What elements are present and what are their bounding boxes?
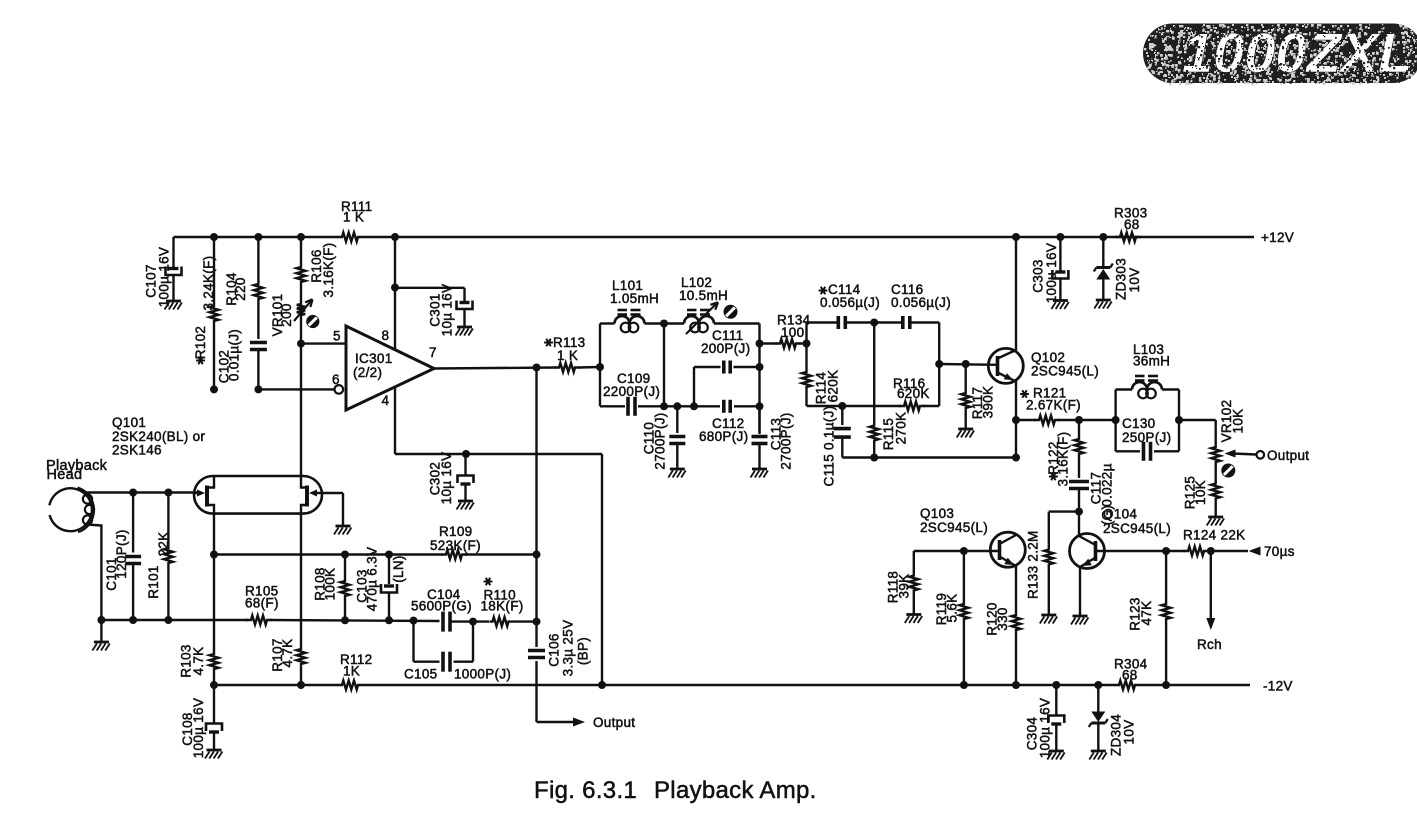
svg-text:2.67K(F): 2.67K(F) — [1026, 398, 1081, 413]
svg-text:250P(J): 250P(J) — [1122, 430, 1171, 445]
ground C108 — [205, 750, 222, 759]
svg-text:0.01µ(J): 0.01µ(J) — [226, 329, 241, 381]
inductor L101 — [610, 278, 659, 332]
node J13 — [533, 618, 541, 626]
node J3 — [297, 233, 305, 241]
svg-text:10K: 10K — [1231, 409, 1246, 434]
resistor R111 — [337, 199, 372, 242]
node J26 — [129, 616, 137, 624]
svg-text:Fig. 6.3.1: Fig. 6.3.1 — [534, 777, 637, 804]
svg-text:C115 0.1µ(J): C115 0.1µ(J) — [822, 406, 837, 487]
wire R113 to tank — [579, 366, 601, 369]
node J57 — [1207, 547, 1215, 555]
node J56 — [1162, 681, 1170, 689]
wire box left — [1114, 390, 1116, 452]
capacitor C114 — [820, 282, 880, 329]
capacitor C103 — [355, 547, 407, 621]
svg-text:0.022µ: 0.022µ — [1099, 463, 1114, 506]
node J22 — [297, 681, 305, 689]
node J9 — [598, 681, 606, 689]
svg-text:Output: Output — [593, 715, 635, 730]
capacitor C104 — [411, 587, 472, 632]
node J52 — [960, 547, 968, 555]
potentiometer VR101 — [270, 285, 313, 344]
node J36 — [803, 340, 811, 348]
svg-text:2.2M: 2.2M — [1026, 530, 1041, 561]
net 70us — [1249, 544, 1295, 559]
svg-text:220: 220 — [233, 277, 248, 300]
diode ZD304 — [1089, 685, 1137, 756]
ground C110 — [668, 469, 685, 478]
capacitor C111 — [694, 328, 760, 406]
svg-text:1 K: 1 K — [557, 348, 578, 363]
ground C107 — [165, 301, 182, 310]
node J31 — [756, 363, 764, 371]
svg-text:Q101: Q101 — [112, 415, 146, 430]
svg-text:10µ 16V: 10µ 16V — [439, 452, 454, 505]
svg-text:(2/2): (2/2) — [353, 365, 382, 380]
wire feedback — [537, 368, 577, 723]
wire blk2 top — [807, 321, 940, 323]
wire pin4 — [395, 387, 602, 685]
svg-text:10.5mH: 10.5mH — [679, 288, 728, 303]
node J25 — [164, 489, 172, 497]
star R102 — [196, 357, 205, 365]
node J30 — [756, 340, 764, 348]
resistor R125 — [1183, 476, 1221, 516]
resistor R123 — [1128, 551, 1171, 685]
resistor R116 — [893, 376, 930, 411]
node J37 — [870, 319, 878, 327]
node J34 — [673, 402, 681, 410]
svg-text:68: 68 — [1124, 217, 1140, 232]
svg-text:2700P(J): 2700P(J) — [779, 412, 794, 469]
resistor R109 — [214, 524, 537, 559]
capacitor C108 — [180, 685, 222, 758]
node J39 — [838, 402, 846, 410]
svg-text:470µ 6.3V: 470µ 6.3V — [365, 547, 380, 612]
svg-text:R102: R102 — [193, 326, 208, 359]
svg-text:R101: R101 — [146, 565, 161, 598]
svg-text:70µs: 70µs — [1264, 544, 1295, 559]
wire box bottom — [1116, 450, 1179, 452]
node J11 — [533, 364, 541, 372]
node J47 — [1075, 508, 1083, 516]
resistor R107 — [270, 514, 306, 685]
svg-text:2SK146: 2SK146 — [112, 443, 162, 458]
svg-text:4.7K: 4.7K — [280, 639, 295, 668]
op-amp U IC301 — [346, 326, 437, 410]
svg-text:-12V: -12V — [1263, 679, 1293, 694]
wire tank top — [600, 322, 760, 324]
svg-text:R133: R133 — [1026, 566, 1041, 599]
svg-text:120P(J): 120P(J) — [114, 529, 129, 578]
svg-text:523K(F): 523K(F) — [430, 538, 481, 553]
resistor R124 — [1183, 528, 1245, 556]
potentiometer VR102 — [1211, 400, 1245, 482]
wire to VR102 — [1179, 420, 1216, 444]
node J12 — [533, 551, 541, 559]
svg-text:22K: 22K — [156, 532, 171, 557]
capacitor C101 — [104, 493, 141, 621]
capacitor C106 — [528, 620, 591, 677]
star R121 — [1020, 390, 1029, 398]
wire tank left — [599, 324, 601, 407]
wire Q101 right gate — [322, 493, 343, 525]
svg-text:2SC945(L): 2SC945(L) — [920, 520, 988, 535]
svg-text:10µ 16V: 10µ 16V — [440, 284, 455, 337]
wire pin5 — [301, 329, 346, 344]
terminal Output — [1257, 448, 1310, 463]
node J20 — [469, 618, 477, 626]
wire pin8 — [394, 237, 396, 350]
resistor R106 — [297, 237, 336, 297]
svg-text:100: 100 — [781, 325, 804, 340]
node J51 — [1094, 681, 1102, 689]
svg-text:39K: 39K — [897, 574, 912, 599]
svg-text:R124 22K: R124 22K — [1183, 528, 1245, 543]
capacitor C109 — [603, 371, 660, 416]
svg-text:Head: Head — [47, 467, 83, 483]
svg-text:3.3µ 25V: 3.3µ 25V — [561, 620, 576, 677]
capacitor C304 — [1025, 685, 1065, 758]
capacitor C105 — [404, 621, 511, 682]
svg-text:270K: 270K — [894, 412, 909, 445]
arrow output lower — [573, 718, 585, 727]
node J19 — [385, 551, 393, 559]
svg-text:5600P(G): 5600P(G) — [411, 599, 472, 614]
ground C302 — [457, 501, 474, 510]
node J6 — [254, 385, 262, 393]
svg-text:Q104: Q104 — [1103, 507, 1137, 522]
wire Q104 emitter — [1079, 567, 1081, 616]
svg-text:18K(F): 18K(F) — [481, 599, 524, 614]
wire Q102 emitter — [1015, 381, 1017, 458]
transistor Q101 — [112, 415, 322, 514]
ground C303 — [1051, 301, 1068, 310]
svg-text:4: 4 — [382, 393, 390, 408]
node J1 — [210, 233, 218, 241]
ground ZD303 — [1094, 300, 1111, 309]
svg-text:2SC945(L): 2SC945(L) — [1103, 521, 1171, 536]
resistor R122 — [1046, 420, 1084, 486]
svg-text:100µ 16V: 100µ 16V — [157, 247, 172, 307]
ground C304 — [1047, 751, 1064, 760]
resistor R103 — [179, 514, 219, 685]
resistor R120 — [985, 566, 1021, 686]
wire tank mid — [663, 324, 665, 407]
svg-text:+12V: +12V — [1261, 230, 1294, 245]
node J24 — [129, 489, 137, 497]
node J28 — [596, 363, 604, 371]
resistor R113 — [553, 335, 585, 372]
svg-text:1 K: 1 K — [343, 210, 364, 225]
node J2 — [254, 233, 262, 241]
wire Q103 base — [914, 550, 1000, 552]
node J21 — [210, 681, 218, 689]
ground ZD304 — [1089, 751, 1106, 760]
svg-text:(BP): (BP) — [576, 637, 591, 665]
ground C113 — [751, 469, 768, 478]
wire box top — [1116, 388, 1179, 390]
net -12V label — [1263, 679, 1293, 694]
node J48 — [1056, 233, 1064, 241]
star R113 — [544, 339, 553, 347]
node J49 — [1099, 233, 1107, 241]
logo 1000ZXL — [1143, 21, 1417, 85]
svg-text:4.7K: 4.7K — [191, 647, 206, 676]
svg-text:200: 200 — [279, 303, 294, 326]
screw VR101 — [306, 315, 319, 328]
svg-text:2700P(J): 2700P(J) — [653, 412, 668, 469]
svg-text:68(F): 68(F) — [245, 596, 279, 611]
node J4 — [297, 340, 305, 348]
wire VR101 to Q101 drain — [300, 344, 302, 476]
wire pin7 out — [434, 368, 556, 369]
transistor Q104 — [1070, 507, 1172, 569]
svg-text:1000P(J): 1000P(J) — [454, 667, 511, 682]
capacitor C303 — [1031, 237, 1069, 303]
wire box right — [1178, 390, 1180, 452]
node J53 — [960, 681, 968, 689]
svg-text:8: 8 — [382, 328, 390, 343]
svg-text:100µ 16V: 100µ 16V — [1038, 698, 1053, 758]
capacitor C130 — [1122, 416, 1171, 461]
svg-text:1K: 1K — [343, 664, 360, 679]
resistor R304 — [1114, 657, 1148, 690]
transistor Q102 — [988, 348, 1099, 383]
capacitor C107 — [144, 237, 182, 307]
capacitor C113 — [752, 406, 794, 469]
svg-text:5.6K: 5.6K — [945, 594, 960, 623]
ground R118 — [905, 615, 922, 624]
ground R117 — [957, 429, 974, 438]
svg-text:10V: 10V — [1121, 720, 1136, 745]
net Output label — [593, 715, 635, 730]
net Rch — [1197, 551, 1222, 652]
wire blk2 right — [938, 323, 940, 407]
wire head bottom — [87, 525, 101, 621]
svg-text:C106: C106 — [547, 633, 562, 666]
capacitor C302 — [428, 452, 474, 505]
svg-text:Playback Amp.: Playback Amp. — [654, 777, 817, 804]
svg-text:(LN): (LN) — [391, 555, 406, 582]
svg-text:0.056µ(J): 0.056µ(J) — [820, 295, 880, 310]
node J55 — [1162, 547, 1170, 555]
node J17 — [410, 617, 418, 625]
svg-text:620K: 620K — [826, 370, 841, 403]
node J16 — [385, 616, 393, 624]
svg-text:2200P(J): 2200P(J) — [603, 384, 660, 399]
svg-text:C105: C105 — [404, 667, 437, 682]
svg-text:680P(J): 680P(J) — [699, 429, 748, 444]
resistor R104 — [224, 237, 263, 306]
svg-text:330: 330 — [995, 607, 1010, 630]
star C114 — [819, 287, 828, 295]
caption Fig 6.3.1 — [534, 777, 817, 804]
wire gnd line — [102, 620, 440, 621]
resistor R119 — [934, 551, 968, 685]
svg-text:100µ 16V: 100µ 16V — [1044, 243, 1059, 303]
node J35 — [690, 402, 698, 410]
wire C115 line — [842, 456, 1016, 458]
node J14 — [210, 551, 218, 559]
node J38 — [935, 360, 943, 368]
resistor R108 — [313, 555, 350, 621]
svg-text:1.05mH: 1.05mH — [610, 291, 659, 306]
node J42 — [962, 360, 970, 368]
svg-text:47K: 47K — [1139, 601, 1154, 626]
node J18 — [341, 551, 349, 559]
svg-text:IC301: IC301 — [355, 351, 393, 366]
capacitor C102 — [217, 302, 267, 389]
resistor R105 — [245, 584, 279, 625]
node J10 — [462, 450, 470, 458]
star R122 — [1049, 473, 1058, 481]
node J43 — [1012, 233, 1020, 241]
node J27 — [164, 616, 172, 624]
resistor R133 — [1026, 512, 1080, 614]
ground R133 — [1040, 615, 1057, 624]
ground R125 — [1207, 517, 1224, 526]
wire Q102 base — [939, 363, 997, 366]
node J32 — [756, 402, 764, 410]
capacitor C301 — [395, 284, 473, 337]
capacitor C117 — [1069, 463, 1114, 535]
wire head top — [86, 491, 200, 493]
resistor R115 — [870, 323, 909, 458]
svg-text:390K: 390K — [981, 386, 996, 419]
node J44 — [1012, 416, 1020, 424]
ground Q104 — [1071, 616, 1088, 625]
svg-text:0.056µ(J): 0.056µ(J) — [891, 295, 951, 310]
playback head PB — [46, 458, 108, 532]
ground C301 — [456, 327, 473, 336]
node J58 — [1175, 416, 1183, 424]
svg-text:R109: R109 — [439, 524, 472, 539]
resistor R114 — [802, 369, 841, 404]
net +12V label — [1261, 230, 1294, 245]
svg-text:3.24K(F): 3.24K(F) — [201, 256, 216, 311]
svg-text:Rch: Rch — [1197, 637, 1222, 652]
node J50 — [1052, 681, 1060, 689]
node J7 — [391, 233, 399, 241]
capacitor C112 — [699, 400, 748, 444]
node J40 — [870, 454, 878, 462]
node J45 — [1075, 416, 1083, 424]
wire tank bottom — [600, 405, 760, 407]
wire Q104 base line — [1096, 550, 1249, 552]
resistor R117 — [961, 364, 995, 428]
svg-text:620K: 620K — [897, 386, 930, 401]
resistor R101 — [146, 493, 173, 621]
node J8 — [391, 284, 399, 292]
svg-text:Output: Output — [1267, 448, 1309, 463]
transistor Q103 — [920, 506, 1025, 567]
wire pin6 — [258, 372, 343, 394]
screw L102 — [724, 305, 738, 319]
ground Q101 gate — [334, 526, 351, 535]
svg-text:3.16K(F): 3.16K(F) — [321, 243, 336, 298]
svg-text:10V: 10V — [1127, 268, 1142, 293]
wire blk2 left — [805, 323, 807, 407]
svg-text:200P(J): 200P(J) — [701, 341, 750, 356]
resistor R121 — [1016, 386, 1116, 425]
svg-text:3.16K(F): 3.16K(F) — [1056, 432, 1071, 487]
wire blk2 bottom — [807, 405, 940, 407]
capacitor C115 — [822, 406, 851, 487]
screw VR102 — [1221, 464, 1235, 478]
svg-text:10K: 10K — [1193, 480, 1208, 505]
svg-text:Q103: Q103 — [920, 506, 954, 521]
wire Q102 collector — [1015, 237, 1017, 351]
node J41 — [1012, 454, 1020, 462]
resistor R112 — [337, 652, 372, 690]
svg-text:68: 68 — [1122, 668, 1138, 683]
svg-text:7: 7 — [429, 345, 437, 360]
svg-text:100µ 16V: 100µ 16V — [191, 698, 206, 758]
capacitor C110 — [642, 406, 686, 469]
wire tank right — [758, 324, 760, 435]
inductor L102 — [679, 275, 728, 334]
wire -12V rail — [214, 684, 1250, 686]
node J15 — [341, 616, 349, 624]
star R110 — [484, 578, 493, 586]
node J29 — [660, 320, 668, 328]
svg-text:100K: 100K — [323, 568, 338, 601]
capacitor C116 — [891, 282, 951, 329]
node J33 — [660, 402, 668, 410]
svg-text:5: 5 — [333, 329, 341, 344]
arrow VR102 wiper — [1225, 450, 1257, 458]
resistor R102 — [193, 237, 219, 389]
resistor R303 — [1114, 206, 1147, 242]
node J54 — [1012, 681, 1020, 689]
resistor R110 — [450, 588, 537, 627]
node J5 — [210, 385, 218, 393]
wire +12V rail — [174, 236, 1255, 238]
node J23 — [97, 616, 105, 624]
svg-text:2SC945(L): 2SC945(L) — [1031, 364, 1099, 379]
node J46 — [1112, 416, 1120, 424]
resistor R118 — [886, 551, 919, 614]
ground head — [92, 620, 109, 651]
diode ZD303 — [1094, 237, 1142, 300]
inductor L103 — [1132, 342, 1170, 398]
svg-text:36mH: 36mH — [1133, 354, 1170, 369]
svg-text:C130: C130 — [1122, 416, 1155, 431]
resistor R134 — [760, 313, 811, 349]
